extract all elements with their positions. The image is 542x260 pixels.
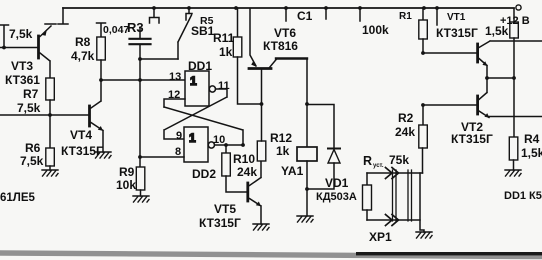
svg-text:+12 В: +12 В [500,15,530,27]
svg-text:7,5k: 7,5k [20,154,44,168]
scan bottom bar dark right [356,252,542,255]
svg-text:VD1: VD1 [325,176,349,190]
terminal +12V [516,5,521,10]
node DD2 out [241,143,245,147]
svg-text:1: 1 [190,74,197,88]
wire DD1 pin12 [164,99,185,107]
node VT2 base junction [421,103,425,107]
switch SB1 [178,8,192,59]
ground R9 [133,196,149,202]
svg-text:R6: R6 [25,141,41,155]
scan bottom bar gray [0,250,542,259]
node pin8 junction [138,155,142,159]
svg-text:100k: 100k [362,23,389,37]
node rail-R1 [422,6,426,10]
svg-text:DD1: DD1 [188,59,212,73]
svg-text:1,5k: 1,5k [521,146,542,160]
wire stub on rail x154 [150,8,160,23]
ground VT5 [253,224,269,230]
node VT6 base [260,102,264,106]
svg-text:КТ315Г: КТ315Г [451,132,493,146]
wire DD1 pin13 [101,79,185,81]
svg-text:R3: R3 [127,20,144,35]
resistor R2 [422,105,424,125]
logic gate DD2 [184,127,208,162]
svg-text:13: 13 [169,71,181,83]
node VT1e-VT2c [485,76,489,80]
svg-text:1k: 1k [276,144,290,158]
wire stub C1 right [325,8,327,19]
wire stub top-left 7,5k [0,25,9,47]
transistor VT4 [88,106,91,126]
node VT1 base [421,51,425,55]
svg-text:0,047: 0,047 [103,24,129,36]
ground relay [297,216,313,222]
wire VT4 base [0,114,88,116]
node R7-R6-VT4base [48,113,52,117]
node divider tap [512,76,516,80]
resistor R9 [139,157,141,167]
svg-text:R7: R7 [23,87,39,101]
resistor R6 [46,148,55,166]
svg-text:VT4: VT4 [70,128,92,142]
wire +12V top rail [58,8,68,24]
svg-text:R4: R4 [524,132,540,146]
ground R6 [42,170,58,176]
node VT3 base junction [2,46,6,50]
svg-text:VT1: VT1 [447,12,466,23]
wire DD2 pin8 [140,156,184,158]
resistor R1 [422,8,424,20]
connector XP1 verticals [393,170,412,221]
wire stub x437 [436,8,438,25]
resistor R12 [257,141,266,161]
connector XP1 bottom line [367,219,420,221]
connector XP1 bottom contacts [386,215,399,226]
svg-text:24k: 24k [237,165,257,179]
wire cap junction down [139,59,141,157]
svg-text:61ЛЕ5: 61ЛЕ5 [0,192,36,204]
node rail-stub437 [435,6,439,10]
resistor R4 [509,137,518,160]
svg-text:1: 1 [189,131,196,145]
svg-text:C1: C1 [297,9,313,23]
svg-text:7,5k: 7,5k [9,27,33,41]
svg-text:R: R [363,154,372,168]
wire stub x360 [359,8,361,21]
wire stub C1 left [285,8,287,21]
transistor VT6 [249,67,271,70]
node rail-R11 [234,6,238,10]
logic gate DD1 [185,71,209,106]
svg-text:КТ361: КТ361 [5,73,40,87]
node R10 tap [224,143,228,147]
node cap-SB1 [138,57,142,61]
node pin13 junction [138,78,142,82]
wire divider vertical [513,38,515,137]
diode VD1 [307,105,334,190]
svg-text:YA1: YA1 [281,164,304,178]
svg-text:R11: R11 [213,31,235,45]
svg-text:КТ315Г: КТ315Г [436,26,478,40]
svg-text:10k: 10k [116,178,136,192]
wire DD1 out pin11 [164,89,227,139]
svg-text:R2: R2 [398,111,414,125]
connector XP1 top contacts [386,168,399,179]
svg-text:8: 8 [175,146,181,158]
svg-text:R9: R9 [119,165,135,179]
node rail-SB1 [187,6,191,10]
svg-text:XP1: XP1 [369,230,392,244]
wire SB1 bottom to cap [140,58,178,60]
svg-text:КТ816: КТ816 [263,39,298,53]
svg-text:R1: R1 [399,11,412,22]
capacitor C 0,047 [139,28,141,38]
svg-text:уст.: уст. [373,163,384,169]
resistor R3 1,5k top [513,9,515,22]
node R8-VT4-collector [99,78,103,82]
transistor VT5 [246,183,249,201]
connector XP1 top line [367,172,423,174]
svg-text:VT5: VT5 [214,202,236,216]
wire DD2 out pin10 [215,144,244,146]
svg-text:24k: 24k [395,125,415,139]
svg-text:1k: 1k [219,45,233,59]
transistor VT3 [37,36,40,58]
svg-text:VT3: VT3 [11,59,33,73]
wire emitter node to divider [487,77,514,79]
svg-text:R5: R5 [200,15,214,27]
svg-text:DD2: DD2 [192,167,216,181]
node rail-stub286 [284,6,288,10]
svg-text:КД503А: КД503А [316,191,357,203]
wire VT2 base [423,104,476,106]
svg-text:КТ315Г: КТ315Г [61,144,103,158]
transistor VT2 [476,96,479,114]
svg-text:VT6: VT6 [274,26,296,40]
wire DD2 feedback diagonal [164,107,243,145]
ground R4 [505,170,521,176]
svg-text:11: 11 [218,80,230,92]
ground VT4 emitter [95,152,111,158]
resistor R8 [97,23,106,37]
node rail-stub154 [152,6,156,10]
resistor R11 [237,8,239,37]
svg-text:7,5k: 7,5k [17,101,41,115]
ground XP1 [416,232,432,238]
svg-text:12: 12 [168,89,180,101]
node rail-stub326 [324,6,328,10]
node relay-diode bottom [305,187,309,191]
svg-text:10: 10 [213,134,225,146]
svg-text:75k: 75k [389,153,409,167]
transistor VT1 [476,44,479,62]
svg-text:КТ315Г: КТ315Г [199,216,241,230]
svg-text:4,7k: 4,7k [71,49,95,63]
resistor R10 [225,145,227,153]
resistor R7 [46,78,55,100]
relay YA1 [306,104,308,147]
svg-text:9: 9 [176,130,182,142]
potentiometer R set 75k [366,173,368,185]
svg-text:R8: R8 [75,35,91,49]
node VT6 collector [305,102,309,106]
svg-text:R10: R10 [233,152,255,166]
wire XP1 to ground [420,173,424,232]
wire VT1 base [423,52,476,54]
wire VT3 base [0,47,37,49]
svg-text:R12: R12 [270,131,292,145]
node rail-stub360 [358,6,362,10]
svg-text:DD1 К5: DD1 К5 [504,190,542,202]
